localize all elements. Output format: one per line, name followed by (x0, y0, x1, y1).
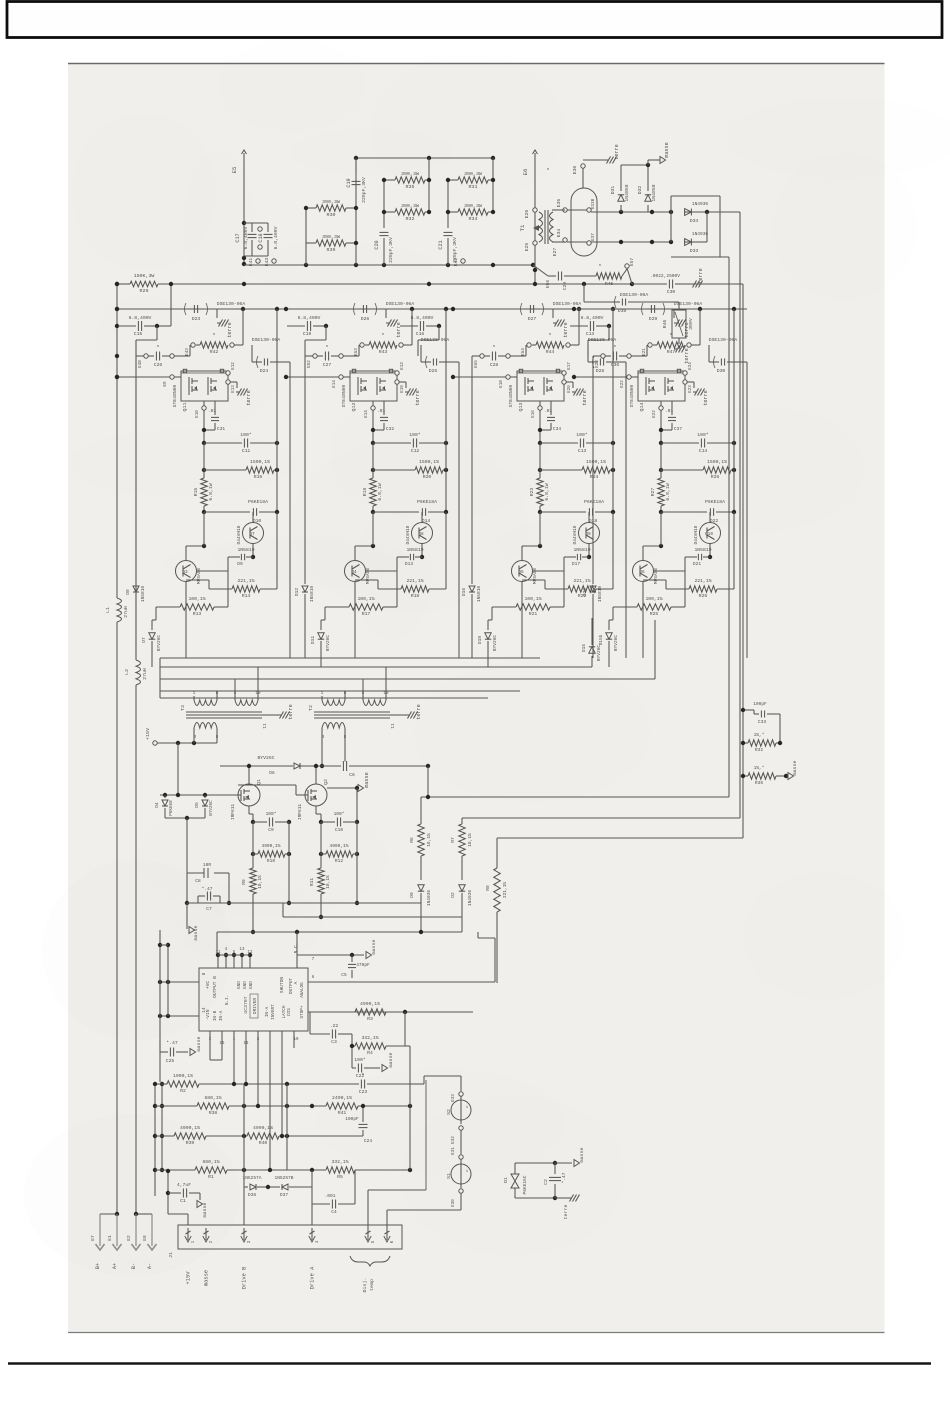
svg-text:R20: R20 (423, 474, 432, 480)
wire top bus y=158 (356, 157, 493, 159)
transil D1 P6KE15C (514, 1163, 516, 1174)
svg-text:D28: D28 (596, 368, 605, 374)
svg-text:terre: terre (563, 1205, 569, 1220)
svg-text:10: 10 (384, 692, 389, 696)
svg-text:R31: R31 (469, 184, 478, 190)
svg-text:100*: 100* (354, 1057, 366, 1063)
svg-text:6.8,400V: 6.8,400V (298, 315, 321, 321)
capacitor C3 .22 (310, 1033, 330, 1035)
capacitor C27 row (313, 354, 317, 358)
svg-text:P6KE68: P6KE68 (169, 800, 174, 816)
terminal E57 (625, 264, 629, 268)
svg-text:R24: R24 (590, 474, 599, 480)
terminal E16 (538, 406, 542, 410)
svg-text:100*: 100* (240, 432, 252, 438)
svg-text:BYV26C: BYV26C (596, 645, 602, 662)
svg-text:masse: masse (203, 1270, 210, 1286)
capacitor C31 .01 (214, 401, 216, 415)
svg-text:Q8: Q8 (418, 532, 424, 537)
svg-text:D44VH10: D44VH10 (572, 525, 578, 544)
svg-text:100pF: 100pF (753, 701, 767, 707)
wire gate bus y=377 channel 2 (286, 376, 339, 378)
scanned sheet background (68, 63, 885, 1333)
header frame box (7, 2, 942, 38)
left rail bus x=136 (135, 340, 137, 660)
diode D31 1N4858 (620, 205, 622, 212)
svg-text:R21: R21 (529, 611, 538, 617)
svg-text:C33: C33 (758, 719, 766, 725)
svg-text:+15V: +15V (185, 1271, 192, 1285)
svg-text:MPSA56: MPSA56 (653, 568, 659, 585)
wire net1 verticals (305, 208, 307, 265)
svg-text:100,1%: 100,1% (524, 596, 541, 602)
resistor R34 390,3W (448, 211, 458, 213)
terre at MOSFET channel 4 (687, 381, 694, 383)
svg-text:IN-A: IN-A (265, 1006, 270, 1017)
svg-text:390,3W: 390,3W (322, 199, 340, 205)
MOSFET pins E12 E13 channel 3 (562, 371, 566, 375)
svg-text:Q4: Q4 (351, 570, 357, 575)
transformer T2 secondary winding (322, 723, 345, 729)
svg-text:27uH: 27uH (123, 606, 129, 618)
svg-text:P6KE18A: P6KE18A (417, 499, 437, 505)
svg-text:E18: E18 (499, 380, 504, 388)
svg-text:6.8,400V: 6.8,400V (273, 226, 279, 249)
svg-text:C3: C3 (331, 1039, 337, 1045)
svg-text:R46: R46 (662, 320, 668, 329)
svg-text:terre: terre (246, 390, 252, 406)
transistor Q4 MPSA56 (345, 561, 366, 582)
capacitor C6 (342, 761, 344, 771)
masse symbol top right (647, 160, 649, 165)
transformer T3 secondary winding (194, 723, 217, 729)
svg-text:6.8,1W: 6.8,1W (377, 483, 383, 500)
wire right drop x=740 (739, 212, 741, 818)
svg-text:1N5819: 1N5819 (406, 547, 423, 553)
svg-text:OUTPUT: OUTPUT (288, 978, 294, 995)
svg-text:R47: R47 (667, 349, 676, 355)
wire S1 bottom to J1 pin 6 (460, 1193, 462, 1210)
svg-text:221,1%: 221,1% (694, 578, 711, 584)
svg-text:*: * (546, 167, 549, 174)
IC top pin stubs (217, 955, 219, 968)
row y=1136 with R39 and R40 4990,1% (155, 1135, 174, 1137)
diode D16 1N5819 on rail (471, 356, 473, 584)
svg-text:1N4936: 1N4936 (467, 890, 473, 907)
wire Q1 ladder right (288, 822, 290, 903)
terminal E22 (659, 406, 663, 410)
svg-text:C34: C34 (553, 426, 561, 432)
svg-text:E56: E56 (545, 280, 551, 288)
wire bus y=213 to diodes (591, 211, 671, 213)
node E42 (461, 259, 465, 263)
resistor R36 1% (743, 775, 748, 777)
resistor R22 221,1% (545, 588, 568, 590)
svg-text:STE48N60: STE48N60 (341, 384, 347, 407)
svg-text:E13: E13 (231, 385, 236, 393)
svg-text:E52: E52 (307, 360, 312, 368)
svg-text:ANALOG: ANALOG (300, 982, 305, 998)
svg-text:470pF: 470pF (356, 962, 370, 968)
resistor R6 10,1% (420, 797, 422, 824)
svg-text:D31: D31 (610, 186, 616, 195)
svg-text:C29: C29 (562, 282, 568, 291)
svg-text:1500,1%: 1500,1% (250, 459, 270, 465)
svg-text:T3: T3 (180, 705, 186, 711)
terre ground channel 3 upper (552, 309, 554, 318)
svg-text:STE48N60: STE48N60 (629, 384, 635, 407)
wire top bus y=265 (244, 264, 533, 266)
terre ground at tube top (583, 159, 605, 161)
terminal E35 (563, 208, 567, 212)
svg-text:2490,1%: 2490,1% (332, 1095, 352, 1101)
wire bottom grid left rail x=155 (154, 1084, 156, 1196)
wire Q2 ladder right (356, 822, 358, 903)
resistor R45 (596, 273, 622, 279)
wire gate bus y=377 channel 3 (453, 376, 506, 378)
svg-text:BYV26C: BYV26C (257, 755, 274, 761)
svg-text:1N5257B: 1N5257B (275, 1175, 294, 1181)
svg-text:C36: C36 (611, 362, 620, 368)
wire harness line 5 (160, 697, 488, 699)
svg-text:100*: 100* (576, 432, 588, 438)
svg-text:4990,1%: 4990,1% (262, 843, 281, 849)
zener D37 1N5257B (268, 1186, 280, 1188)
connector J1 pins (187, 1228, 189, 1240)
svg-text:E17: E17 (567, 362, 572, 370)
transistor Q7 D44VH10 (243, 523, 264, 544)
svg-text:10,1%: 10,1% (467, 833, 473, 847)
svg-text:*.47: *.47 (561, 1172, 567, 1183)
svg-text:IN-B: IN-B (213, 1010, 218, 1021)
svg-text:E33B: E33B (591, 198, 596, 209)
zener D38 1N5257A (244, 1186, 248, 1188)
svg-text:R15: R15 (193, 488, 199, 497)
wire to C30 row (627, 268, 632, 284)
svg-text:.001: .001 (325, 1193, 336, 1199)
svg-text:*: * (492, 344, 495, 351)
svg-text:1500,1%: 1500,1% (707, 459, 727, 465)
svg-text:*: * (156, 344, 159, 351)
inductor L1 27uH (117, 598, 122, 622)
terre at MOSFET channel 2 (399, 381, 406, 383)
svg-text:R1: R1 (208, 1174, 214, 1180)
svg-text:6.8,1W: 6.8,1W (544, 483, 550, 500)
svg-text:BYV26C: BYV26C (492, 635, 498, 652)
svg-text:C18: C18 (258, 233, 264, 242)
wire channel 3 right bus x=277 (612, 309, 614, 512)
svg-text:R35: R35 (406, 184, 415, 190)
transformer T2 primary winding B (363, 700, 386, 706)
svg-text:D7: D7 (141, 637, 147, 643)
svg-text:IN-A: IN-A (219, 1010, 224, 1021)
svg-text:Q2: Q2 (323, 779, 329, 785)
wire net2 verticals (383, 180, 385, 228)
svg-text:1N4936: 1N4936 (692, 201, 709, 207)
resistor R23 6.8,1W vertical (539, 443, 541, 478)
svg-text:L2: L2 (124, 669, 130, 675)
svg-text:C27: C27 (323, 362, 332, 368)
svg-text:Disj.: Disj. (362, 1278, 368, 1293)
svg-text:+15V: +15V (145, 728, 151, 740)
svg-text:8: 8 (202, 972, 207, 975)
capacitor C13 100pF row (538, 441, 542, 445)
power MOSFET pair Q11 STE48N60 (181, 371, 228, 401)
terre ground at T3 (262, 714, 278, 716)
svg-text:D4: D4 (154, 802, 160, 808)
svg-text:terre: terre (415, 390, 421, 406)
svg-text:E2: E2 (126, 1235, 132, 1241)
svg-text:D34: D34 (690, 218, 699, 224)
svg-text:terre: terre (703, 390, 709, 406)
svg-text:C26: C26 (154, 362, 163, 368)
svg-text:100,1%: 100,1% (188, 596, 205, 602)
resistor R9 10,1% vertical (252, 822, 254, 868)
svg-text:E36: E36 (572, 166, 578, 175)
svg-text:D44VH10: D44VH10 (405, 525, 411, 544)
wire D4 D5 join (165, 817, 205, 819)
svg-text:E14: E14 (332, 380, 337, 388)
svg-text:E31: E31 (451, 1147, 456, 1155)
svg-text:1%,*: 1%,* (754, 732, 765, 738)
svg-text:C7: C7 (206, 906, 212, 912)
svg-text:1N4858: 1N4858 (651, 184, 657, 201)
diode D8 1N5819 on rail (135, 356, 137, 584)
svg-text:R11: R11 (309, 878, 315, 886)
svg-text:D13: D13 (405, 561, 413, 567)
svg-text:masse: masse (364, 772, 370, 788)
svg-text:D44VH10: D44VH10 (236, 525, 242, 544)
svg-text:terre: terre (288, 704, 294, 720)
resistor R12 4990,1% rung (319, 852, 323, 856)
svg-text:R10: R10 (267, 858, 275, 864)
svg-text:E21: E21 (642, 348, 647, 356)
svg-text:4990,1%: 4990,1% (180, 1125, 200, 1131)
resistor R43 with terminals (360, 343, 364, 347)
svg-text:B+: B+ (95, 1263, 101, 1269)
svg-text:6.8,400V: 6.8,400V (129, 315, 152, 321)
svg-text:221,1%: 221,1% (237, 578, 254, 584)
diode D19 BYV26C (487, 620, 489, 630)
IC U1 UC3707 body (199, 968, 308, 1031)
svg-text:E37: E37 (591, 233, 596, 241)
svg-text:C13: C13 (578, 448, 587, 454)
svg-text:D25: D25 (429, 368, 438, 374)
wire elbow below C16 (438, 326, 440, 340)
svg-text:masse: masse (664, 142, 670, 158)
wire channel 4 right bus x=277 (733, 309, 735, 512)
resistor R46 300V block (672, 310, 686, 338)
wire feedback y=838 (497, 837, 743, 839)
wire S chain top (423, 1076, 425, 1084)
svg-text:C31: C31 (217, 426, 225, 432)
svg-text:masse: masse (372, 940, 377, 955)
resistor R28 1500,1% (659, 468, 663, 472)
svg-text:A: A (293, 981, 299, 984)
svg-text:Drive B: Drive B (241, 1266, 248, 1289)
svg-text:1N4858: 1N4858 (624, 184, 630, 201)
svg-text:.01: .01 (377, 408, 385, 414)
svg-text:E7: E7 (90, 1235, 96, 1241)
svg-text:1N5819: 1N5819 (597, 586, 603, 603)
wire feedback y=818 (462, 817, 740, 819)
diode D7 BYV26C (151, 620, 153, 630)
terre at C30 (691, 283, 694, 285)
wire corner x=495 up (494, 938, 496, 982)
svg-text:MPSA56: MPSA56 (196, 568, 202, 585)
capacitor C17 6.8,400V (244, 222, 268, 224)
svg-text:221,1%: 221,1% (502, 882, 508, 899)
svg-text:masse: masse (203, 1203, 208, 1218)
svg-text:C19: C19 (303, 331, 312, 337)
svg-text:terre: terre (227, 322, 233, 338)
Disj temp bracket (350, 1256, 390, 1266)
capacitor C37 .01 (671, 401, 673, 415)
capacitor C28 row (480, 354, 484, 358)
resistor R18 221,1% (378, 588, 401, 590)
svg-text:P6KE18A: P6KE18A (248, 499, 268, 505)
wire harness line 2 (160, 666, 592, 668)
svg-text:terre: terre (698, 268, 704, 284)
svg-text:D20: D20 (582, 588, 588, 596)
diode D15 BYV26C (591, 656, 593, 667)
resistor R7 10,1% (461, 818, 463, 824)
wire R4 node to bottom grid (405, 1045, 410, 1047)
left rail bus B+ x=117 (116, 284, 118, 598)
svg-text:D6: D6 (269, 770, 275, 776)
svg-text:4990,1%: 4990,1% (360, 1001, 380, 1007)
svg-text:R3: R3 (367, 1016, 373, 1022)
svg-text:MPSA56: MPSA56 (532, 568, 538, 585)
svg-text:E22: E22 (620, 380, 625, 388)
svg-text:T1: T1 (519, 224, 526, 231)
svg-text:*.47: *.47 (166, 1040, 178, 1046)
svg-text:A+: A+ (112, 1263, 118, 1269)
sheet bottom edge (68, 1332, 885, 1334)
svg-text:Q3: Q3 (182, 570, 188, 575)
svg-text:390,3W: 390,3W (401, 203, 419, 209)
svg-text:10: 10 (256, 692, 261, 696)
transformer T1 primary (539, 212, 543, 242)
svg-text:D23: D23 (192, 316, 201, 322)
resistor R32b 1% (743, 742, 748, 744)
svg-text:10,1%: 10,1% (257, 875, 263, 889)
svg-text:Q12: Q12 (351, 403, 357, 412)
svg-text:GND: GND (237, 981, 242, 989)
svg-text:terre: terre (396, 322, 402, 338)
svg-text:DSE130-06A: DSE130-06A (217, 301, 246, 307)
capacitor C19 220pF,3KV (355, 158, 357, 172)
diode D4 P6KE6.8 (164, 795, 166, 798)
wire R29 right drop (170, 284, 172, 326)
svg-text:390,3W: 390,3W (401, 171, 419, 177)
svg-text:E1: E1 (107, 1235, 113, 1241)
svg-text:1000,1%: 1000,1% (173, 1073, 193, 1079)
svg-text:1N5819: 1N5819 (476, 586, 482, 603)
svg-text:D9: D9 (237, 561, 243, 567)
svg-text:*: * (613, 344, 616, 351)
svg-text:temp: temp (369, 1279, 375, 1291)
resistor R47 with terminals (648, 343, 652, 347)
svg-text:D38: D38 (618, 308, 627, 314)
svg-text:DIS: DIS (287, 1008, 292, 1016)
svg-text:INVERT: INVERT (271, 1004, 276, 1020)
capacitor C23 inline (360, 1080, 362, 1089)
svg-text:1N5819: 1N5819 (694, 547, 711, 553)
svg-text:D11: D11 (310, 636, 316, 644)
transistor Q3 MPSA56 (176, 561, 197, 582)
svg-text:DRIVER: DRIVER (252, 998, 258, 1015)
resistor R14 221,1% (209, 588, 232, 590)
svg-text:D9: D9 (409, 892, 415, 898)
resistor R42 with terminals (191, 343, 195, 347)
wire D33 to D34 junction (706, 212, 708, 242)
svg-text:DSE130-06A: DSE130-06A (386, 301, 415, 307)
capacitor C24 100pF (362, 1106, 364, 1122)
capacitor C25 .47 and masse (159, 1040, 161, 1052)
footer rule (8, 1362, 931, 1364)
svg-text:E23: E23 (595, 360, 600, 368)
svg-text:C4: C4 (331, 1209, 337, 1215)
transistor Q10 D44VH10 (700, 523, 721, 544)
svg-text:E23: E23 (688, 385, 693, 393)
svg-text:L1: L1 (105, 607, 111, 613)
svg-text:R32: R32 (406, 216, 415, 222)
MOSFET Q1 IRF611 (238, 784, 260, 806)
transformer T3 core (186, 711, 262, 713)
terre at MOSFET channel 3 (566, 381, 573, 383)
svg-text:E55: E55 (474, 360, 479, 368)
tube envelope (571, 188, 597, 256)
svg-text:SHUTDN: SHUTDN (279, 977, 285, 994)
resistor R44 with terminals (527, 343, 531, 347)
svg-text:D27: D27 (528, 316, 537, 322)
svg-text:Q7: Q7 (249, 532, 255, 537)
svg-text:11: 11 (391, 723, 396, 729)
svg-text:C9: C9 (268, 827, 274, 833)
svg-text:14: 14 (202, 1007, 207, 1013)
terre ground channel 2 upper (385, 309, 387, 318)
resistor R8 221,1% (496, 838, 498, 868)
svg-text:D15b: D15b (598, 634, 604, 645)
svg-text:100*: 100* (697, 432, 709, 438)
svg-text:DSE130-06A: DSE130-06A (620, 292, 649, 298)
svg-text:masse: masse (389, 1053, 394, 1068)
svg-text:masse: masse (580, 1148, 585, 1163)
svg-text:C8: C8 (195, 878, 201, 884)
snubber box outline (671, 195, 720, 197)
svg-text:R18: R18 (411, 593, 420, 599)
svg-text:1N4936: 1N4936 (692, 231, 709, 237)
svg-text:221,1%: 221,1% (573, 578, 590, 584)
row y=1170 with R1 680,1% and R5 332,1% (155, 1169, 195, 1171)
svg-text:GND: GND (249, 981, 254, 989)
svg-text:R43: R43 (379, 349, 388, 355)
svg-text:E25: E25 (524, 243, 530, 252)
wire bottom bus y=903 (187, 902, 421, 904)
svg-text:100*: 100* (334, 811, 345, 817)
svg-text:STE48N60: STE48N60 (508, 384, 514, 407)
capacitor C18 6.8,400V (267, 223, 269, 232)
svg-text:*: * (381, 332, 384, 339)
resistor R24 1500,1% (538, 468, 542, 472)
tube pins E33B E37 (587, 208, 591, 212)
svg-text:C6: C6 (349, 772, 355, 778)
transformer T2 core (314, 711, 390, 713)
svg-text:D16: D16 (461, 588, 467, 596)
svg-text:C5: C5 (341, 972, 347, 978)
resistor R39 390,3W (306, 242, 316, 244)
